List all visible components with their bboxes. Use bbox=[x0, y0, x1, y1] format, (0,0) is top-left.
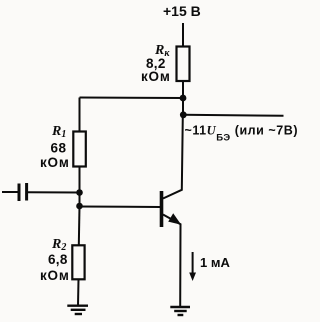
transistor Q1 base bar bbox=[160, 191, 164, 227]
capacitor plate left bbox=[18, 184, 21, 202]
wire R1 bottom to base node bbox=[79, 167, 81, 207]
svg-text:~11UБЭ (или ~7В): ~11UБЭ (или ~7В) bbox=[185, 124, 299, 144]
junction node at collector/R1 bbox=[180, 95, 187, 102]
resistor R2 body bbox=[72, 245, 84, 279]
transistor Q1 emitter arrowhead bbox=[168, 213, 181, 225]
junction node at output bbox=[180, 111, 187, 118]
svg-text:68: 68 bbox=[51, 141, 67, 156]
wire down into R1 bbox=[79, 98, 81, 133]
svg-text:R1: R1 bbox=[51, 124, 66, 140]
wire capacitor to base node bbox=[28, 191, 80, 193]
wire node to R1 top bbox=[80, 97, 184, 100]
capacitor plate right bbox=[25, 183, 28, 201]
svg-text:6,8: 6,8 bbox=[48, 252, 68, 267]
wire base node down to R2 bbox=[78, 206, 81, 246]
transistor Q1 collector lead bbox=[163, 116, 183, 199]
resistor R1 body bbox=[73, 132, 86, 167]
output wire bbox=[183, 115, 284, 116]
svg-text:кОм: кОм bbox=[40, 155, 70, 170]
svg-text:кОм: кОм bbox=[40, 268, 70, 283]
resistor Rk body bbox=[177, 47, 190, 82]
current arrow head bbox=[189, 273, 196, 282]
ground symbol under R2 bbox=[67, 306, 88, 314]
svg-text:1 мА: 1 мА bbox=[200, 255, 230, 270]
junction node base/R2 bbox=[76, 203, 83, 210]
svg-text:R2: R2 bbox=[51, 237, 66, 253]
svg-text:+15 В: +15 В bbox=[163, 3, 201, 19]
wire base node to transistor base bbox=[80, 206, 161, 209]
svg-text:кОм: кОм bbox=[141, 69, 171, 84]
ground symbol under emitter bbox=[170, 307, 190, 315]
wire R2 to ground bbox=[77, 279, 80, 305]
wire Rk to collector node bbox=[182, 81, 184, 116]
wire capacitor input bbox=[2, 191, 18, 193]
transistor Q1 emitter lead bbox=[163, 215, 181, 307]
current arrow 1mA shaft bbox=[192, 252, 194, 275]
wire +15V feed bbox=[182, 23, 184, 47]
junction node capacitor/base bbox=[76, 189, 83, 196]
